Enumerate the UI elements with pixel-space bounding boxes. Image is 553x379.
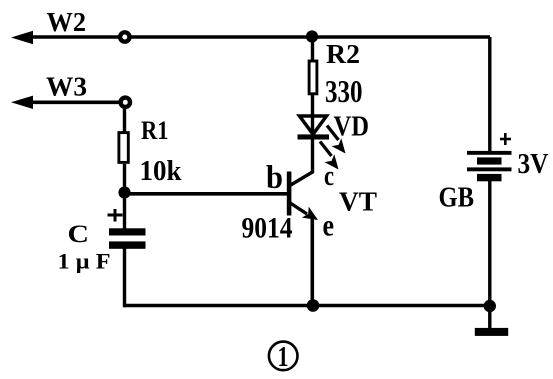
svg-text:R1: R1 <box>141 116 169 145</box>
wire rail to R2 <box>311 37 314 61</box>
battery GB plate short 2 <box>477 174 502 181</box>
ground bar <box>475 328 508 336</box>
junction emitter bottom rail <box>307 299 320 312</box>
wire LED to collector <box>289 138 313 186</box>
wire R1 to node A <box>123 164 126 194</box>
svg-text:9014: 9014 <box>242 212 293 245</box>
svg-text:3V: 3V <box>518 149 549 180</box>
wire battery to ground node <box>488 181 491 306</box>
svg-text:R2: R2 <box>326 39 360 69</box>
resistor R1 <box>119 133 128 163</box>
label + of battery <box>500 133 511 145</box>
svg-text:1: 1 <box>278 341 289 373</box>
svg-text:GB: GB <box>439 183 475 214</box>
wire R2 to LED <box>311 95 314 134</box>
svg-text:330: 330 <box>325 73 363 109</box>
svg-text:1 µ F: 1 µ F <box>58 249 111 274</box>
LED VD cathode bar <box>298 134 330 139</box>
wire node A to capacitor C <box>123 192 126 229</box>
wire W3 lead <box>20 101 125 105</box>
wire W2 top rail <box>20 35 490 39</box>
wire node A to base <box>125 192 290 196</box>
transistor VT emitter <box>290 203 319 221</box>
svg-text:W2: W2 <box>47 7 87 37</box>
capacitor C plate 2 <box>109 241 146 248</box>
LED VD triangle <box>300 116 327 134</box>
junction battery bottom rail <box>484 300 496 312</box>
battery GB plate long 1 <box>467 151 512 155</box>
label + of capacitor <box>108 209 123 222</box>
svg-text:C: C <box>68 221 90 248</box>
node A junction <box>118 186 130 198</box>
ground stub <box>488 306 491 329</box>
svg-text:e: e <box>323 208 335 243</box>
svg-text:c: c <box>324 160 334 192</box>
wire emitter to bottom rail <box>310 218 314 306</box>
capacitor C plate 1 <box>109 228 146 235</box>
svg-text:b: b <box>266 160 283 196</box>
wire C to bottom rail <box>123 248 126 307</box>
terminal W3 <box>121 98 130 107</box>
svg-text:W3: W3 <box>46 72 87 102</box>
transistor VT base bar <box>287 172 292 216</box>
junction R2 top rail <box>306 30 318 42</box>
wire W3 terminal to R1 <box>123 109 126 133</box>
wire top rail to battery <box>488 37 491 153</box>
svg-text:VT: VT <box>339 187 377 217</box>
arrow W2 lead-out <box>11 31 33 44</box>
battery GB plate long 2 <box>467 167 512 171</box>
resistor R2 <box>309 61 317 94</box>
svg-text:VD: VD <box>334 112 370 143</box>
LED light arrow 2 <box>320 142 339 170</box>
terminal W2 <box>120 32 129 41</box>
wire bottom rail <box>125 304 491 308</box>
arrow W3 lead-out <box>11 96 33 109</box>
battery GB plate short 1 <box>477 157 502 164</box>
figure number 1 circle <box>269 342 298 371</box>
LED light arrow 1 <box>327 126 346 154</box>
svg-text:10k: 10k <box>140 156 182 187</box>
